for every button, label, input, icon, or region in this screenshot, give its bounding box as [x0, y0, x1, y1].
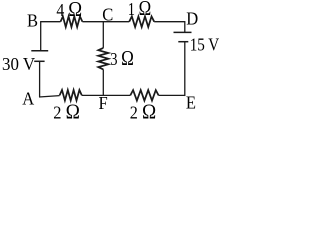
wire right vertical D down to battery [184, 21, 186, 32]
wire B to R1 (top-left segment) [41, 21, 61, 23]
svg-text:1 Ω: 1 Ω [128, 0, 151, 21]
battery 15V short plate [178, 41, 188, 43]
svg-text:15 V: 15 V [190, 34, 220, 55]
svg-text:D: D [186, 9, 198, 29]
wire R 1ohm to D corner [154, 21, 185, 23]
battery 15V long plate [174, 31, 192, 33]
svg-text:E: E [186, 93, 196, 113]
battery 30V short plate [34, 60, 44, 62]
wire battery 15V to E corner [184, 42, 186, 96]
svg-text:2 Ω: 2 Ω [130, 101, 156, 121]
wire R 4ohm to R 1ohm through node C [82, 21, 129, 23]
wire left vertical B down to battery [40, 21, 42, 51]
svg-text:C: C [102, 5, 113, 25]
wire R 2ohm right to E corner [159, 94, 185, 96]
svg-text:F: F [99, 94, 108, 114]
wire battery to A corner [39, 61, 41, 97]
resistor 3ohm (between C and F) [98, 48, 108, 70]
wire node C down to R 3ohm [102, 22, 104, 48]
wire R 3ohm down to node F [102, 69, 104, 95]
resistor 4ohm (between B and C) [61, 16, 83, 27]
resistor 2ohm right (between F and E) [130, 90, 158, 101]
battery 30V long plate [31, 50, 48, 52]
svg-text:3 Ω: 3 Ω [110, 47, 134, 70]
svg-text:4 Ω: 4 Ω [56, 0, 82, 21]
svg-text:2 Ω: 2 Ω [53, 101, 80, 121]
wire A corner to R 2ohm left [39, 96, 60, 97]
svg-text:30 V: 30 V [2, 53, 35, 74]
resistor 1ohm (between C and D) [129, 16, 154, 27]
svg-text:A: A [22, 89, 34, 109]
wire R 2ohm left to R 2ohm right through node F [82, 94, 131, 96]
svg-text:B: B [27, 11, 38, 31]
resistor 2ohm left (between A and F) [60, 90, 82, 101]
